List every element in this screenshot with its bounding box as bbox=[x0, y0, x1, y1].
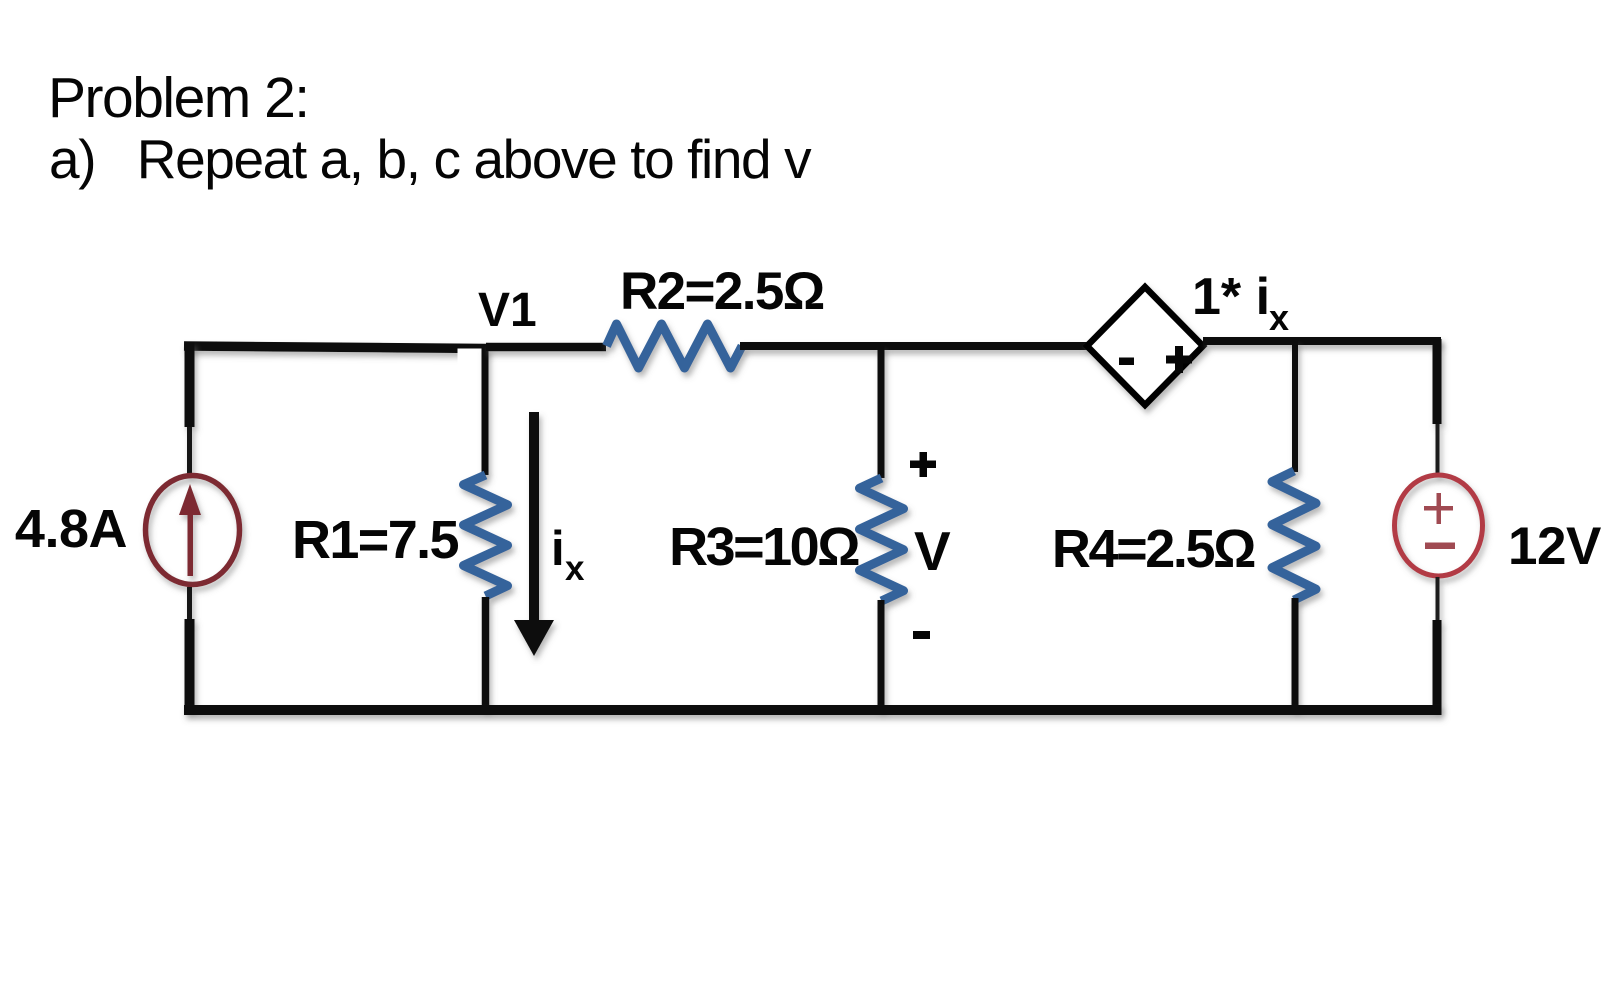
resistor R4 zigzag bbox=[1272, 471, 1316, 600]
resistor R2 zigzag bbox=[607, 324, 743, 368]
wire: below R1 to bottom rail bbox=[482, 597, 490, 710]
svg-text:x: x bbox=[565, 549, 585, 588]
wire: R4 branch down from top rail bbox=[1292, 341, 1298, 472]
wire: V1 vertical down to R1 bbox=[482, 347, 489, 475]
wire: below R4 to bottom rail bbox=[1292, 598, 1299, 710]
white overlap notch at node V1 bbox=[458, 349, 489, 366]
svg-text:12V: 12V bbox=[1508, 517, 1601, 576]
svg-text:4.8A: 4.8A bbox=[15, 499, 127, 559]
wire: V1 to R2 bbox=[486, 343, 606, 352]
minus sign inside 12V source bbox=[1425, 543, 1455, 550]
voltage source 12V circle bbox=[1395, 475, 1483, 576]
svg-text:V1: V1 bbox=[478, 284, 537, 337]
resistor R3 zigzag bbox=[860, 478, 904, 601]
svg-text:R3=10Ω: R3=10Ω bbox=[669, 517, 859, 577]
svg-text:1* i: 1* i bbox=[1192, 268, 1270, 326]
wire: below R3 to bottom rail bbox=[878, 600, 885, 710]
minus sign of V bbox=[913, 631, 930, 639]
wire: lead below 12V source bbox=[1436, 577, 1440, 622]
wire: lead to 12V source bbox=[1436, 424, 1440, 475]
svg-text:R2=2.5Ω: R2=2.5Ω bbox=[620, 262, 824, 321]
svg-text:V: V bbox=[914, 520, 951, 582]
svg-text:x: x bbox=[1269, 297, 1289, 338]
current source I1 circle bbox=[146, 476, 240, 585]
wire: left vertical lower (thick part) bbox=[185, 619, 195, 710]
plus sign of V bbox=[910, 452, 936, 477]
wire: left vertical lead to current source bbox=[187, 427, 192, 475]
svg-text:R1=7.5: R1=7.5 bbox=[292, 510, 459, 570]
current source I1 arrow bbox=[179, 484, 201, 576]
wire: R2 to diamond left vertex (through R3 junction) bbox=[740, 342, 1088, 350]
wire: left vertical upper (thick part) bbox=[185, 342, 195, 427]
wire: bottom-right vertical (thick part) bbox=[1433, 620, 1442, 710]
wire: diamond right vertex to top-right corner bbox=[1203, 337, 1441, 345]
wire: top-left from source top to node V1 bbox=[184, 346, 487, 349]
wire: top-right vertical (thick part) bbox=[1433, 339, 1442, 424]
wire: bottom rail bbox=[184, 705, 1442, 715]
plus sign inside 12V source bbox=[1424, 493, 1453, 524]
dependent source diamond bbox=[1087, 287, 1203, 405]
current arrow ix bbox=[514, 412, 554, 656]
wire: left vertical lead below current source bbox=[187, 587, 192, 621]
svg-text:a) Repeat a, b, c above to f: a) Repeat a, b, c above to find v bbox=[49, 128, 812, 190]
svg-text:i: i bbox=[551, 522, 565, 576]
minus sign inside diamond bbox=[1119, 358, 1134, 366]
svg-text:R4=2.5Ω: R4=2.5Ω bbox=[1052, 519, 1255, 579]
resistor R1 zigzag bbox=[464, 475, 508, 596]
wire: R3 branch down from top rail bbox=[878, 346, 885, 478]
svg-text:Problem 2:: Problem 2: bbox=[48, 66, 309, 130]
plus sign inside diamond bbox=[1166, 346, 1192, 373]
